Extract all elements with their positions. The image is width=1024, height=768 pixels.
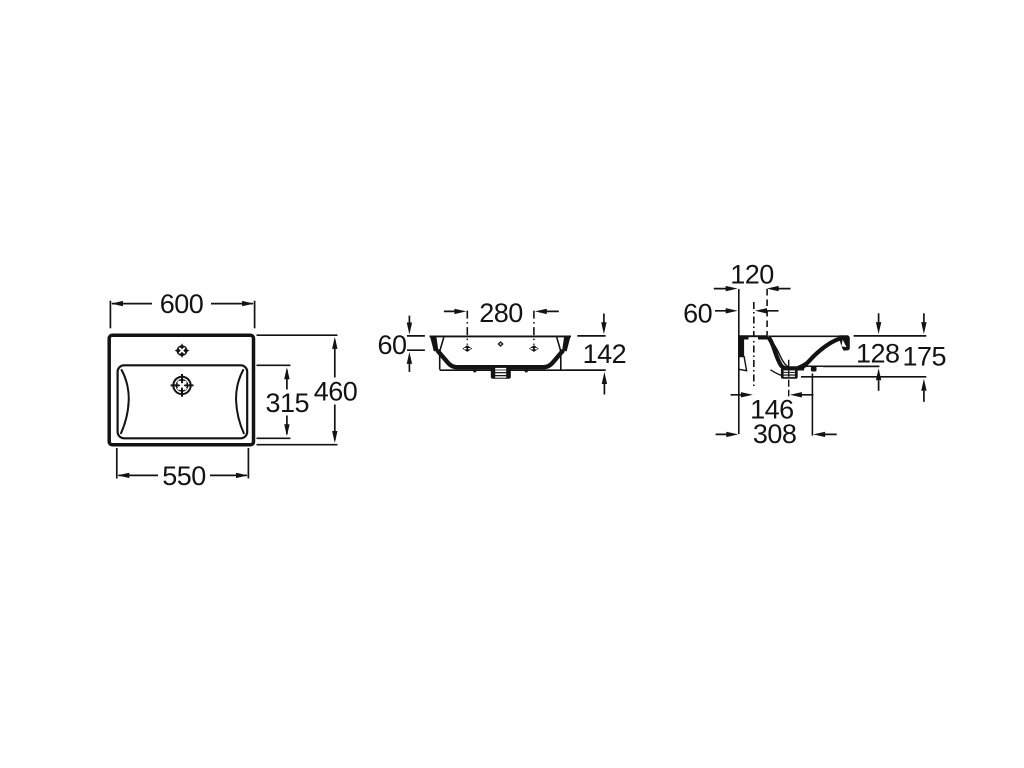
128 down arrow bbox=[878, 313, 880, 322]
drain symbol (plan) bbox=[171, 374, 194, 397]
bowl inner back thin curve (side) bbox=[770, 339, 788, 367]
svg-text:175: 175 bbox=[903, 341, 947, 371]
svg-text:308: 308 bbox=[753, 419, 797, 449]
120 reference dashed line (side) bbox=[766, 289, 768, 335]
bowl outline thick (front) bbox=[437, 350, 563, 367]
rim top thin line (side) bbox=[769, 335, 845, 337]
back wall lower wedge (side) bbox=[739, 357, 747, 371]
svg-text:142: 142 bbox=[583, 339, 627, 369]
svg-text:315: 315 bbox=[266, 388, 310, 418]
svg-text:550: 550 bbox=[162, 461, 206, 491]
175 down arrow bbox=[923, 313, 925, 322]
basin inner bowl rounded rectangle (plan) bbox=[118, 365, 248, 438]
basin left wall slope curve bbox=[121, 369, 129, 434]
tap hole centerline dash-dot (side) bbox=[753, 302, 755, 388]
dimension 280 (front top) bbox=[444, 310, 559, 312]
dimension 60 (front left) bbox=[407, 316, 425, 372]
back wall black (side) bbox=[739, 336, 744, 357]
hole centerlines dash-dot (front) bbox=[466, 311, 468, 345]
175 bottom extension line (side) bbox=[801, 376, 926, 378]
right rim tab (front) bbox=[562, 336, 571, 352]
tap hole notch in deck (side) bbox=[749, 337, 759, 340]
underside line (side) bbox=[800, 365, 823, 367]
128 up arrow bbox=[878, 380, 880, 391]
washbasin outer rim rectangle (plan) bbox=[109, 335, 253, 445]
wall extension line (side) bbox=[738, 289, 740, 434]
left faucet hole diamond (front) bbox=[462, 345, 472, 352]
drain centerline (side) bbox=[788, 360, 790, 397]
right faucet hole diamond (front) bbox=[529, 345, 539, 352]
bowl front thick rising curve (side) bbox=[802, 338, 842, 368]
dimension 315 (plan inner right) bbox=[257, 365, 291, 438]
svg-text:128: 128 bbox=[856, 338, 900, 368]
deck top thick line (side) bbox=[739, 335, 769, 339]
dimension 146 (side bottom) bbox=[731, 394, 814, 396]
fixing bumps (front) bbox=[473, 369, 476, 372]
dimension 550 (plan bottom) bbox=[117, 448, 249, 479]
dimension 460 (plan right) bbox=[257, 335, 338, 445]
front lip hook white notch (side) bbox=[841, 340, 846, 348]
left rim tab (front) bbox=[430, 336, 439, 352]
faucet hole symbol (plan) bbox=[175, 343, 190, 358]
center hole diamond (front) bbox=[498, 341, 504, 347]
dimension 120 (side top) bbox=[714, 288, 791, 290]
dimension 600 (plan top) bbox=[110, 301, 254, 329]
dimension 142 (front right) bbox=[566, 314, 606, 395]
basin right wall slope curve bbox=[236, 369, 244, 434]
drain tailpiece (side) bbox=[781, 368, 798, 379]
underside line (front) bbox=[440, 369, 606, 371]
bowl outer shell under line (side) bbox=[771, 370, 782, 376]
svg-text:280: 280 bbox=[479, 298, 523, 328]
svg-text:60: 60 bbox=[683, 298, 712, 328]
rim inner lip lines (front) bbox=[440, 337, 444, 369]
drain tailpiece (front) bbox=[491, 367, 511, 379]
dimension 60 (side left) bbox=[715, 310, 779, 312]
dimension 128/175 top extension line (side) bbox=[854, 335, 927, 337]
svg-text:600: 600 bbox=[160, 289, 204, 319]
svg-text:460: 460 bbox=[314, 376, 358, 406]
boss extension line (side) bbox=[811, 374, 813, 436]
128 bottom extension line (side) bbox=[823, 365, 879, 367]
front lip hook head (side) bbox=[839, 335, 850, 350]
dimension 308 (side bottom) bbox=[716, 433, 837, 435]
rim top line (front) bbox=[430, 335, 572, 337]
bowl back thick curve (side) bbox=[768, 337, 804, 368]
fixing boss (side) bbox=[811, 366, 817, 371]
svg-text:120: 120 bbox=[730, 259, 774, 289]
svg-text:60: 60 bbox=[377, 330, 406, 360]
175 up arrow bbox=[923, 391, 925, 402]
bowl inner front thin curve (side) bbox=[798, 340, 839, 367]
